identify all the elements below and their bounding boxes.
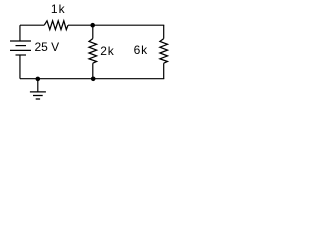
- svg-text:k: k: [141, 43, 148, 57]
- svg-text:k: k: [108, 44, 115, 58]
- svg-text:k: k: [59, 2, 66, 16]
- svg-text:6: 6: [134, 43, 141, 57]
- svg-text:2: 2: [100, 44, 107, 58]
- svg-text:1: 1: [51, 2, 58, 16]
- svg-text:25 V: 25 V: [35, 40, 60, 54]
